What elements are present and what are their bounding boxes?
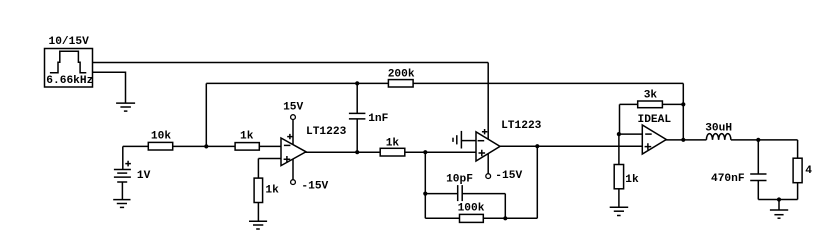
svg-text:10pF: 10pF [446, 173, 473, 185]
svg-text:1V: 1V [137, 170, 151, 182]
svg-text:100k: 100k [458, 203, 485, 215]
wire feedback riser to output [536, 146, 538, 218]
wire U1 supply top [292, 120, 294, 145]
wire bottom right rail [758, 199, 797, 201]
svg-text:LT1223: LT1223 [501, 120, 542, 132]
node C1 bottom junction [355, 150, 359, 154]
svg-text:1k: 1k [625, 174, 639, 186]
node C1 top junction [355, 81, 359, 85]
op-amp U1 LT1223 [281, 134, 306, 166]
ground for V1 [116, 103, 135, 111]
wire V+ drop of U2 [487, 63, 489, 140]
resistor R4 200k [388, 69, 415, 87]
wire C2 right drop [504, 194, 506, 219]
wire feedback bottom rail [425, 217, 537, 219]
svg-text:IDEAL: IDEAL [638, 114, 672, 126]
pin 15V terminal U1 [291, 115, 296, 120]
svg-text:1nF: 1nF [368, 113, 388, 125]
svg-text:1k: 1k [240, 130, 254, 142]
resistor R2 1k [235, 130, 259, 150]
wire stage3 output line [665, 139, 706, 141]
svg-text:1k: 1k [265, 184, 279, 196]
ground for R3 [249, 221, 267, 229]
node U3 output junction [681, 138, 685, 142]
wire U2 supply bottom [487, 154, 489, 174]
node C2 R6 right junction [503, 216, 507, 220]
wire G5 stem [778, 200, 780, 210]
node R8 right junction [681, 102, 685, 106]
node stage2 output junction [535, 144, 539, 148]
resistor R8 3k [620, 90, 684, 108]
svg-text:3k: 3k [644, 90, 658, 102]
wire battery top lead [122, 146, 124, 169]
wire feedback rail drop to input node [205, 83, 207, 146]
wire stage1 output line [305, 151, 476, 153]
wire input line [123, 145, 281, 147]
svg-text:15V: 15V [283, 102, 303, 114]
wire R7 bottom lead [618, 189, 620, 208]
wire V1 minus to ground [93, 72, 126, 103]
wire R9 bottom lead [797, 183, 799, 200]
resistor R1 10k [148, 131, 172, 150]
capacitor C3 470nF [711, 140, 767, 200]
capacitor C1 1nF [349, 83, 389, 152]
resistor R5 1k [380, 138, 405, 156]
wire U1 supply bottom [292, 159, 294, 180]
resistor R7 1k [614, 165, 639, 189]
ground for R7 [610, 207, 629, 215]
inductor L1 30uH [705, 122, 732, 140]
ground right [770, 210, 788, 218]
node C2 tee junction [423, 192, 427, 196]
op-amp U2 LT1223 [476, 129, 500, 161]
svg-text:-15V: -15V [495, 170, 522, 182]
wire global feedback drop [682, 83, 684, 139]
node ground junction right [777, 197, 781, 201]
op-amp U3 IDEAL [642, 125, 666, 154]
voltage source V1 pulse box [45, 36, 94, 87]
node B stage2 input junction [423, 150, 427, 154]
wire R3 top lead [257, 159, 259, 179]
resistor R3 1k [254, 178, 279, 202]
wire R3 bottom lead [257, 203, 259, 222]
svg-text:30uH: 30uH [705, 122, 732, 134]
svg-text:LT1223: LT1223 [306, 126, 347, 138]
wire R7 top lead [618, 134, 620, 164]
wire U3 inverting input [618, 133, 642, 135]
resistor R9 4 [793, 158, 812, 183]
wire stage2 output line [499, 145, 642, 147]
pin -15V terminal U2 [486, 174, 491, 179]
wire after L1 [731, 139, 798, 141]
wire 3k left drop [619, 104, 621, 134]
node C3 top junction [756, 138, 760, 142]
resistor R6 100k [458, 203, 485, 223]
node A input junction [204, 144, 208, 148]
wire R9 top lead [797, 140, 799, 158]
pin -15V terminal U1 [291, 180, 296, 185]
ground rotated at U2 inverting input [453, 131, 476, 149]
svg-text:-15V: -15V [301, 180, 328, 192]
ground for V2 [113, 200, 130, 208]
svg-text:4: 4 [805, 165, 812, 177]
node U3 inverting junction [617, 132, 621, 136]
wire feedback rail 200k [206, 82, 683, 84]
svg-text:10/15V: 10/15V [49, 36, 90, 48]
svg-text:200k: 200k [388, 69, 415, 81]
svg-text:1k: 1k [386, 138, 400, 150]
wire feedback drop from node B [424, 152, 426, 218]
svg-text:6.66kHz: 6.66kHz [46, 75, 93, 87]
capacitor C2 10pF [425, 173, 505, 201]
svg-text:10k: 10k [151, 131, 171, 143]
wire U1 noninverting input [258, 158, 281, 160]
wire top rail from V1 to U2 V+ [93, 62, 489, 64]
svg-text:470nF: 470nF [711, 173, 745, 185]
battery V2 [114, 161, 131, 200]
